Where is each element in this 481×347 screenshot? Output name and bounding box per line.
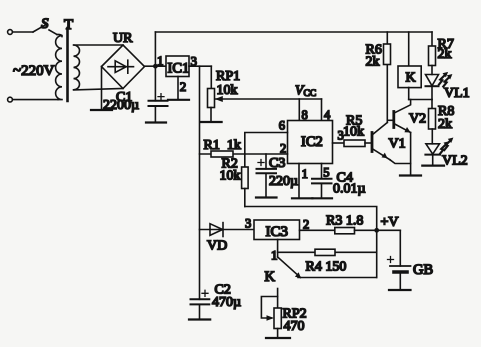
- transformer T primary winding: [56, 34, 62, 99]
- svg-text:S: S: [41, 16, 49, 32]
- ground: [422, 165, 444, 167]
- svg-text:0.01µ: 0.01µ: [333, 181, 366, 196]
- wire RP1 wiper to Vcc: [216, 98, 322, 100]
- wire pin3: [189, 65, 211, 67]
- wire pin1 IC3: [277, 240, 279, 258]
- svg-text:VL1: VL1: [444, 86, 470, 101]
- svg-text:UR: UR: [113, 31, 133, 46]
- wire up to +rail: [154, 32, 156, 66]
- transformer T secondary winding: [74, 45, 80, 90]
- svg-text:V1: V1: [389, 137, 406, 152]
- resistor R1: [211, 151, 233, 157]
- svg-text:VD: VD: [207, 239, 227, 254]
- svg-text:R1 1k: R1 1k: [204, 138, 241, 153]
- resistor R6: [386, 32, 388, 44]
- switch S: [33, 24, 47, 32]
- svg-text:10k: 10k: [217, 83, 238, 98]
- bridge rectifier UR: [102, 45, 145, 89]
- svg-text:1: 1: [302, 167, 308, 181]
- svg-text:~220V: ~220V: [13, 63, 55, 79]
- ground: [91, 109, 112, 111]
- ground: [389, 289, 411, 291]
- transformer core: [66, 28, 69, 101]
- ground: [400, 174, 421, 176]
- svg-text:VL2: VL2: [442, 153, 468, 168]
- ground: [266, 337, 290, 339]
- svg-text:10k: 10k: [220, 168, 241, 183]
- ground: [189, 318, 210, 320]
- svg-text:470: 470: [284, 319, 305, 334]
- svg-text:2: 2: [180, 79, 187, 94]
- resistor R4: [315, 249, 335, 255]
- wire node V2 collector: [409, 99, 432, 101]
- svg-text:470µ: 470µ: [212, 295, 241, 310]
- wire pin8: [298, 99, 300, 121]
- svg-text:CC: CC: [304, 89, 317, 99]
- svg-text:V2: V2: [409, 112, 426, 127]
- svg-text:R3 1.8: R3 1.8: [326, 214, 363, 229]
- LED VL1: [426, 75, 439, 86]
- wire pin2 to R3: [300, 229, 335, 231]
- terminal top-left: [8, 30, 13, 35]
- svg-text:5: 5: [323, 166, 329, 180]
- wire: [13, 99, 58, 101]
- resistor R3: [335, 228, 355, 234]
- svg-text:K: K: [406, 71, 416, 86]
- diode VD: [200, 229, 255, 231]
- wire long vertical from IC1 pin3: [199, 66, 201, 299]
- svg-text:220µ: 220µ: [269, 174, 298, 189]
- svg-text:2k: 2k: [438, 47, 452, 62]
- capacitor C4: [321, 164, 323, 179]
- node +V: [374, 228, 379, 233]
- svg-text:6: 6: [279, 119, 285, 133]
- svg-text:2200µ: 2200µ: [103, 98, 139, 113]
- wire top rail: [155, 31, 432, 33]
- wire bridge minus down: [101, 67, 103, 110]
- svg-text:C3: C3: [269, 156, 285, 171]
- op-amp IC1: [166, 56, 189, 77]
- svg-text:1: 1: [271, 248, 278, 263]
- timer IC2: [288, 121, 333, 164]
- relay coil K: [408, 32, 410, 66]
- svg-text:+V: +V: [381, 215, 399, 230]
- ground: [146, 121, 166, 123]
- resistor R5: [344, 140, 365, 147]
- potentiometer RP1: [208, 89, 215, 108]
- terminal bottom-left: [8, 97, 13, 102]
- capacitor C1: [154, 66, 156, 101]
- resistor R2: [244, 154, 246, 167]
- svg-text:IC2: IC2: [301, 134, 323, 150]
- battery GB: [399, 231, 401, 267]
- svg-text:T: T: [64, 17, 73, 33]
- svg-text:GB: GB: [413, 262, 433, 278]
- wire pin6: [245, 133, 288, 155]
- svg-text:K: K: [265, 269, 276, 285]
- ground: [201, 121, 222, 123]
- regulator IC3: [254, 220, 300, 240]
- wire bridge plus to node: [145, 65, 167, 67]
- ground: [256, 196, 277, 198]
- svg-text:10k: 10k: [343, 125, 364, 140]
- wire to RP1: [210, 66, 212, 88]
- wire secondary top: [74, 44, 123, 46]
- node junction: [153, 64, 158, 69]
- wire: [13, 31, 34, 33]
- ground: [312, 197, 332, 199]
- svg-text:2k: 2k: [438, 117, 452, 132]
- potentiometer RP2: [277, 289, 279, 309]
- wire pin1: [298, 164, 300, 198]
- resistor R8: [431, 100, 433, 109]
- svg-text:2: 2: [303, 218, 309, 232]
- ground: [168, 99, 189, 101]
- capacitor C2: [191, 298, 210, 300]
- transistor V2: [392, 112, 395, 128]
- capacitor C3: [265, 154, 267, 169]
- svg-text:IC3: IC3: [266, 224, 289, 240]
- resistor R7: [431, 32, 433, 47]
- transistor V1: [371, 133, 374, 152]
- relay contact K: [278, 257, 301, 278]
- wire bottom feedback line: [245, 207, 377, 278]
- svg-text:2k: 2k: [366, 55, 380, 70]
- svg-text:3: 3: [245, 217, 251, 231]
- ground: [292, 197, 312, 199]
- svg-text:1: 1: [157, 53, 164, 68]
- svg-text:R4 150: R4 150: [306, 260, 347, 275]
- svg-text:IC1: IC1: [168, 61, 190, 77]
- LED VL2: [426, 144, 440, 154]
- wire pin2 down: [177, 77, 179, 99]
- wire secondary bottom: [74, 89, 123, 90]
- wire pin3 IC2: [333, 142, 345, 144]
- wire pin4: [321, 99, 323, 121]
- wire: [49, 30, 57, 35]
- wire R1 line: [200, 153, 288, 155]
- svg-text:2: 2: [280, 142, 286, 156]
- svg-text:RP1: RP1: [216, 69, 240, 84]
- wire R4 line: [278, 251, 377, 253]
